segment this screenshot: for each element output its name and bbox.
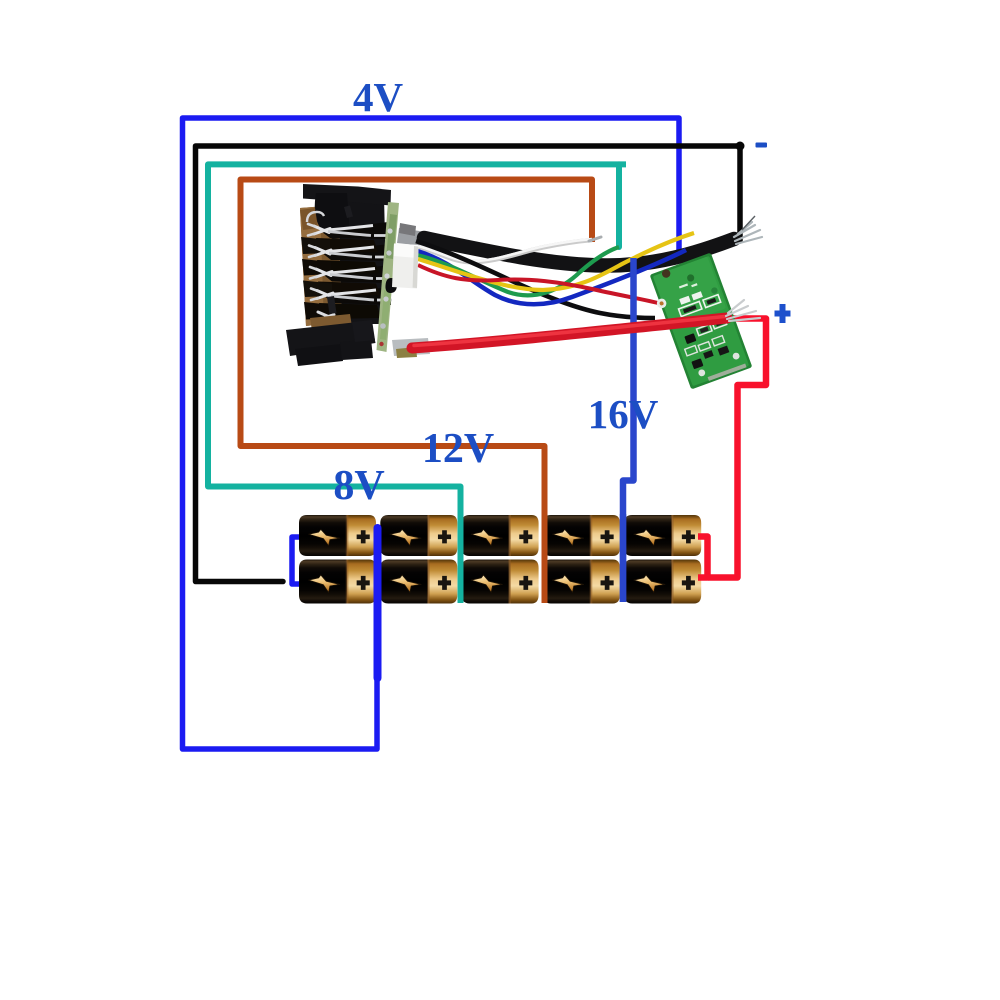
connector bottom bracket [286, 321, 376, 357]
contact top curl [307, 212, 324, 222]
wire 4V blue fat overlay across pack [374, 528, 382, 678]
BMS PCB module [646, 253, 752, 391]
pcb mounting hole [661, 268, 672, 279]
battery cell B2 [380, 515, 457, 556]
wire 8V teal drop to green wire tip [616, 164, 622, 247]
red wire frayed strands at BMS [726, 300, 760, 321]
battery cell B10 [624, 560, 701, 604]
wire 12V orange (tap between cells 3-4 to white harness wire) [241, 180, 593, 604]
svg-text:12V: 12V [422, 426, 494, 472]
wire 8V teal overlay across pack [458, 514, 464, 603]
harness white wire tip [589, 237, 601, 241]
connector top cheek [315, 193, 350, 239]
harness white JST connector shell [392, 244, 419, 289]
harness cable frayed strands [734, 222, 762, 244]
contact beak 1 [320, 222, 388, 239]
harness blue wire [417, 250, 686, 304]
battery cell B6 [299, 560, 376, 604]
connector top peg [344, 206, 353, 219]
wire positive red bracket overlay [698, 537, 708, 578]
label plus [775, 304, 791, 323]
connector top-right solder tab [397, 228, 426, 246]
node negative corner dot [736, 142, 745, 151]
pcb edge pins [708, 363, 747, 380]
power lead thick red wire to BMS [412, 318, 727, 348]
wire 8V teal (tap between cells 2-3 to green harness wire) [208, 164, 626, 603]
wire 4V blue loop (cell-1 tap to harness blue wire) [183, 118, 680, 749]
wire positive red from BMS to pack right [708, 319, 766, 578]
contact spring 5 lower curl [318, 312, 334, 320]
contact spring 3 [310, 267, 391, 279]
battery cell B5 [624, 515, 701, 556]
harness black signal wire [416, 241, 655, 318]
svg-text:16V: 16V [588, 391, 659, 437]
battery cell B9 [543, 560, 620, 604]
contact beak 4 [323, 287, 391, 305]
harness red signal wire [418, 265, 666, 305]
pcb solder pads [655, 297, 667, 309]
connector PCB strip [377, 202, 400, 352]
harness yellow wire (16V sense) [418, 233, 694, 290]
battery cell B8 [462, 560, 539, 604]
connector bottom-right solder tab [392, 338, 430, 356]
wire blue parallel bracket at pack left [292, 537, 305, 584]
pcb transistor Q1 [683, 318, 694, 328]
contact beak 2 [321, 244, 389, 261]
contact spring 2 [309, 246, 390, 258]
connector center body [338, 196, 387, 324]
svg-text:8V: 8V [333, 463, 384, 509]
wire 16V royal overlay across pack [620, 514, 627, 602]
pcb resistors row [696, 324, 712, 335]
connector top bracket [303, 184, 391, 206]
contact spring 4 [311, 289, 392, 301]
svg-text:4V: 4V [353, 74, 404, 120]
harness black cable (negative lead) [424, 238, 734, 266]
wire 12V orange overlay across pack [542, 514, 548, 603]
pcb silkscreen blocks [679, 283, 688, 288]
contact spring 1 [308, 224, 389, 236]
harness green wire (8V sense) [417, 247, 619, 295]
connector tan backing [300, 205, 342, 326]
thermistor [385, 278, 397, 293]
contact beak shadows under [316, 238, 378, 253]
label minus [756, 143, 768, 148]
battery cell B1 [299, 515, 376, 556]
connector PCB solder joints [387, 228, 392, 233]
battery cell B7 [380, 560, 457, 604]
battery connector terminal block [300, 184, 391, 326]
wire negative black (frame) [196, 146, 741, 582]
contact top tan [300, 208, 318, 230]
contact beak 3 [322, 265, 390, 283]
battery cell B4 [543, 515, 620, 556]
connector bottom peg [327, 296, 337, 314]
battery cell B3 [462, 515, 539, 556]
harness white wire (12V sense) [419, 240, 592, 262]
connector lower tan [310, 314, 353, 337]
wire 16V royal blue (tap between cells 4-5 to yellow harness wire) [623, 258, 634, 602]
